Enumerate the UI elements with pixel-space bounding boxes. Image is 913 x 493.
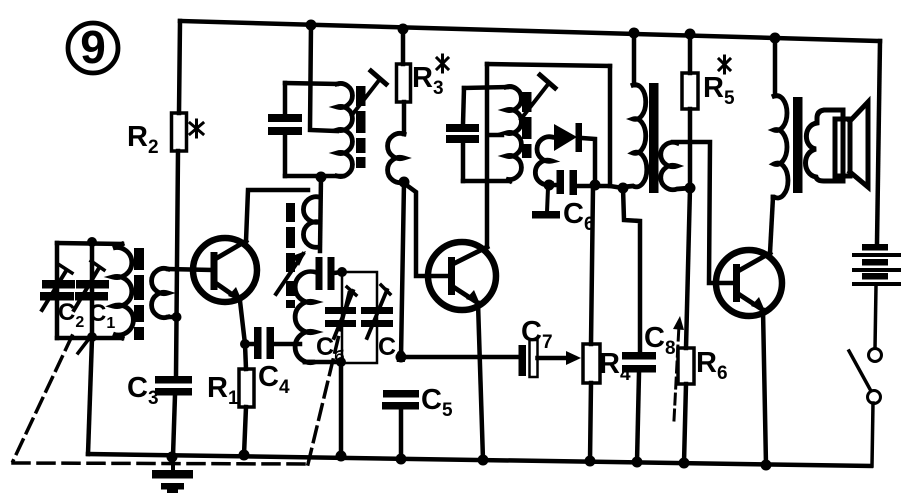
R6 dashed adjustment arrow bbox=[673, 316, 684, 420]
wire secondary top to Q1 base bbox=[168, 269, 211, 270]
wire bottom ground bus bbox=[88, 454, 871, 466]
inductor T3 primary bbox=[623, 85, 647, 187]
wire long vertical to C5/C7 node bbox=[401, 182, 404, 357]
tuning gang frame left line / capacitor C2 plates line bbox=[55, 243, 60, 338]
tuning gang rail top bbox=[57, 243, 122, 244]
svg-text:R1: R1 bbox=[207, 372, 239, 409]
node T1 bottom / oscillator feed bbox=[316, 172, 327, 183]
node bus at Q2 emitter bbox=[478, 455, 489, 466]
asterisk at R2 bbox=[190, 120, 203, 137]
node tuning gang bottom bbox=[87, 332, 97, 342]
transistor Q1 bbox=[193, 238, 257, 302]
svg-text:C4: C4 bbox=[258, 361, 290, 398]
svg-text:C8: C8 bbox=[644, 322, 676, 359]
node bus at R6 bbox=[679, 458, 690, 469]
svg-text:9: 9 bbox=[80, 21, 106, 73]
svg-text:R2: R2 bbox=[127, 121, 159, 158]
wire T2 tank bottom bbox=[463, 179, 510, 184]
node tuning gang top bbox=[87, 237, 97, 247]
capacitor C5 bbox=[382, 390, 419, 410]
wire T4 primary top lead bbox=[773, 38, 778, 95]
dashed gang link diagonal left bbox=[13, 336, 72, 461]
wire Q3 collector up to T4 bbox=[770, 197, 773, 253]
dashed gang link bottom horizontal bbox=[13, 463, 308, 464]
svg-text:C3: C3 bbox=[127, 372, 159, 409]
inductor T2 primary bbox=[506, 87, 521, 181]
transistor Q3 bbox=[716, 250, 782, 316]
wire feed drop right of T2 bbox=[608, 66, 613, 186]
wire R1 bottom to bus bbox=[244, 407, 246, 455]
trimmer capacitor Cb bbox=[325, 287, 356, 338]
trimmer capacitor C2 bbox=[361, 285, 393, 338]
battery B1 bbox=[852, 244, 901, 286]
T2 tuning core (dashed) bbox=[522, 92, 532, 158]
wire box bottom to bus bbox=[339, 363, 344, 456]
capacitor C7 electrolytic bbox=[519, 340, 538, 377]
capacitor oscillator padder bbox=[316, 257, 343, 290]
wire detector node right to transformer bottom bbox=[595, 186, 623, 188]
wire R5 bottom to secondary node bbox=[688, 109, 693, 188]
wire R2 bottom to C3 bbox=[176, 151, 178, 376]
wire R5 top lead bbox=[688, 34, 693, 73]
speaker magnet and voice coil bbox=[806, 110, 844, 181]
wire T1 tank top bbox=[285, 83, 337, 84]
asterisk at R3 bbox=[437, 55, 448, 72]
wire T3 primary top lead bbox=[632, 33, 637, 85]
svg-text:C5: C5 bbox=[421, 384, 453, 421]
svg-text:C6: C6 bbox=[563, 198, 595, 235]
wire top bus right corner down to battery bbox=[877, 41, 880, 243]
wire Q2 base tap bbox=[405, 184, 448, 276]
wire battery bottom to switch bbox=[875, 286, 876, 349]
node box top left bbox=[337, 267, 347, 277]
capacitor C6 bbox=[549, 170, 595, 195]
node top bus at R5 bbox=[685, 29, 696, 40]
node secondary bottom junction on R2 line bbox=[172, 312, 182, 322]
wire C7 to R4 wiper arrow bbox=[538, 351, 582, 365]
capacitor C8 bbox=[622, 352, 656, 373]
diode detector bbox=[554, 123, 595, 185]
variable capacitor C1 (tuning gang section) bbox=[74, 261, 109, 310]
resistor R1 bbox=[239, 369, 254, 407]
wire T2 tank top bbox=[464, 87, 507, 88]
node bus at C8 bbox=[632, 457, 643, 468]
wire R6 bottom to bus bbox=[684, 384, 686, 463]
inductor oscillator winding B bbox=[295, 271, 315, 362]
wire C5 node to C7 bbox=[402, 355, 518, 360]
wire C8 bottom to bus bbox=[637, 373, 639, 462]
node box bottom left bbox=[336, 357, 346, 367]
figure number 9 badge bbox=[68, 21, 118, 73]
wire secondary node down to R6 bbox=[686, 188, 690, 348]
wire Q2 emitter to bus bbox=[478, 303, 483, 460]
inductor antenna coil primary bbox=[113, 244, 133, 338]
wire C3 bottom to ground bus bbox=[173, 395, 175, 456]
wire Q1 emitter down to C4 node bbox=[240, 301, 245, 344]
node bus at Q3 emitter bbox=[761, 460, 772, 471]
wire Q2 collector vertical to T2 feed corner bbox=[485, 64, 490, 247]
asterisk at R5 bbox=[719, 56, 730, 73]
ground stub at C6 bbox=[532, 188, 560, 219]
wire center line of tuning gang bbox=[90, 242, 95, 338]
wire oscillator winding B bottom to box bbox=[305, 360, 341, 365]
svg-text:C2: C2 bbox=[58, 299, 84, 331]
wire C5 bottom to bus bbox=[399, 410, 404, 459]
node bus at ground bbox=[167, 452, 178, 463]
node top bus at T3 bbox=[629, 28, 640, 39]
capacitor C3 bbox=[155, 376, 192, 396]
node top bus at R3 bbox=[398, 24, 409, 35]
node bus at R1 bbox=[239, 450, 250, 461]
wire T2 feed top horizontal bbox=[487, 64, 610, 66]
potentiometer R4 bbox=[583, 344, 600, 383]
T1 tuning core (dashed) bbox=[356, 86, 366, 168]
wire R4 bottom to bus bbox=[590, 383, 591, 461]
speaker cone bbox=[850, 102, 868, 187]
resistor R2 bbox=[172, 113, 187, 151]
oscillator core (dashed) bbox=[286, 203, 295, 308]
resistor R6 bbox=[678, 348, 694, 384]
inductor T2 secondary bbox=[535, 137, 552, 185]
node transformer T3 primary bottom bbox=[618, 183, 629, 194]
oscillator adjustment arrow bbox=[276, 251, 306, 294]
inductor T1 primary bbox=[337, 84, 352, 177]
wire tuning gang bottom to ground bus bbox=[88, 338, 92, 454]
switch S1 bbox=[849, 349, 882, 404]
ferrite rod core (dashed bar) bbox=[134, 248, 144, 340]
T4 iron core bbox=[793, 97, 803, 193]
wire R1 top lead bbox=[245, 344, 246, 369]
wire top bus bbox=[180, 21, 880, 41]
inductor oscillator winding A bbox=[303, 197, 319, 248]
tuning gang rail bottom bbox=[57, 336, 122, 341]
node C6 left / ground bbox=[544, 180, 555, 191]
node bus at R4 bbox=[585, 456, 596, 467]
svg-text:R6: R6 bbox=[696, 347, 728, 384]
T1 adjustment arrow bbox=[352, 71, 386, 115]
transistor Q2 bbox=[428, 242, 496, 310]
wire secondary bottom stub to R2 line bbox=[168, 315, 176, 320]
wire T3 secondary top to Q3 base bbox=[673, 142, 733, 283]
speaker frame bar bbox=[835, 119, 850, 176]
capacitor T1 tank cap bbox=[268, 83, 302, 176]
svg-text:C7: C7 bbox=[521, 316, 553, 353]
wire R3 top lead bbox=[401, 29, 406, 64]
wire top bus down to T1 tap bbox=[310, 25, 337, 131]
T2 adjustment arrow bbox=[521, 75, 555, 119]
dashed gang link short tick bbox=[78, 340, 88, 353]
wire Q1 collector up and right to oscillator coil bbox=[246, 190, 308, 241]
resistor R5 bbox=[682, 73, 698, 109]
node top bus at T1 feed bbox=[306, 20, 317, 31]
ground symbol bbox=[152, 456, 193, 493]
wire reflex jog down to C8 bbox=[623, 188, 640, 352]
inductor T3 secondary bbox=[661, 142, 690, 189]
T3 iron core bbox=[649, 83, 659, 193]
box around padder trimmers Cb C2 bbox=[342, 272, 377, 363]
capacitor C4 bbox=[248, 327, 300, 359]
node detector output bbox=[590, 180, 601, 191]
node T3 secondary bottom / R5 bbox=[685, 183, 696, 194]
variable capacitor C2 (tuning gang section) bbox=[40, 264, 75, 310]
wire T1 bottom node down to osc winding A bottom bbox=[320, 177, 321, 251]
wire T1 tank bottom bbox=[285, 174, 343, 179]
resistor R3 bbox=[397, 64, 411, 102]
wire R3 bottom to T1 secondary bbox=[402, 102, 407, 134]
wire detector node down to R4 bbox=[591, 187, 593, 344]
wire T2 tap bbox=[488, 133, 502, 138]
wire left vertical from top bus to R2 bbox=[179, 21, 180, 113]
node bus below box bbox=[336, 451, 347, 462]
inductor T4 primary bbox=[773, 95, 788, 198]
inductor T1 secondary bbox=[388, 133, 404, 182]
wire Q3 emitter to bus bbox=[763, 310, 766, 465]
wire switch to bus corner bbox=[872, 403, 873, 466]
svg-text:R5: R5 bbox=[703, 72, 735, 109]
node C5/C7 junction bbox=[396, 352, 407, 363]
node top bus at T4 bbox=[770, 33, 781, 44]
capacitor T2 tank cap bbox=[446, 88, 479, 181]
inductor antenna coil secondary bbox=[152, 268, 168, 317]
node emitter / C4 junction bbox=[240, 339, 250, 349]
node T1 secondary bottom bbox=[399, 177, 410, 188]
node bus at C5 bbox=[396, 454, 407, 465]
dashed gang link diagonal right bbox=[308, 289, 350, 464]
